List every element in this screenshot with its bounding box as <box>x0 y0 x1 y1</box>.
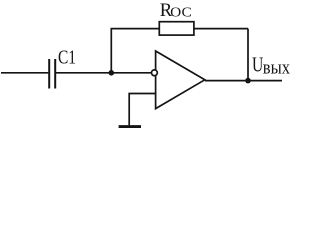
svg-text:ОС: ОС <box>170 6 192 21</box>
wire feedback down <box>247 29 249 81</box>
wire non-inverting input <box>129 94 155 126</box>
wire output <box>205 80 282 82</box>
wire input left <box>1 72 48 74</box>
resistor Roc <box>159 22 194 35</box>
svg-text:вых: вых <box>263 57 291 78</box>
node junction dot output <box>245 78 251 84</box>
svg-text:U: U <box>252 53 263 77</box>
capacitor C1 <box>49 59 55 89</box>
op-amp U1 <box>156 51 205 109</box>
wire feedback up <box>110 29 112 73</box>
svg-text:C1: C1 <box>58 47 76 69</box>
ground <box>119 125 141 128</box>
node junction dot input <box>109 70 115 76</box>
wire capacitor to op-amp input <box>56 72 152 74</box>
inverting input circle <box>152 70 158 76</box>
wire feedback top right <box>194 28 248 30</box>
wire feedback top left <box>111 28 160 30</box>
